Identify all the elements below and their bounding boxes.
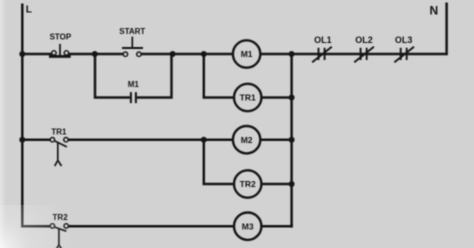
svg-text:M1: M1 [128, 80, 140, 89]
pushbutton STOP (NC) [49, 44, 71, 57]
wire: seal-in branch right [137, 53, 172, 98]
node: bus at TR2 [289, 181, 295, 187]
coil TR1 [234, 84, 261, 111]
wire: M2 coil to bus [260, 138, 292, 141]
node: bus at rung1 [289, 51, 295, 57]
wire rung1: START to M1 coil [141, 53, 233, 56]
wire rung1: bus to N rail through overloads [292, 53, 448, 56]
svg-text:OL2: OL2 [355, 35, 373, 45]
svg-text:OL3: OL3 [395, 35, 413, 45]
coil M1 [233, 40, 260, 67]
node: seal-in right junction [170, 51, 176, 57]
wire: TR2 branch from rung2 [204, 139, 234, 184]
contact M1 (seal-in NO) [131, 92, 136, 103]
wire: M3 coil to bus corner [261, 225, 291, 227]
overload contact OL1 [312, 47, 332, 62]
wire rung1: STOP to START [69, 53, 124, 56]
wire: TR1 branch from rung1 [204, 53, 234, 98]
svg-text:L: L [26, 5, 32, 16]
svg-text:STOP: STOP [50, 32, 72, 41]
overload contact OL2 [354, 47, 374, 62]
node: rail-rung2 junction [19, 137, 25, 143]
wire rung3: rail to TR2 contact [21, 225, 50, 228]
node: bus at TR1 [289, 95, 295, 101]
wire rung2: TR1 contact to M2 coil [68, 138, 233, 141]
wire: seal-in branch left [95, 53, 130, 98]
svg-text:TR1: TR1 [240, 93, 256, 103]
node: TR1 branch junction [201, 51, 207, 57]
timed contact TR1 (NOTC) [50, 138, 68, 166]
node: seal-in left junction [92, 51, 98, 57]
wire: TR1 coil to bus [261, 96, 292, 99]
svg-text:M3: M3 [242, 221, 254, 231]
coil TR2 [234, 170, 261, 197]
coil M3 [234, 213, 261, 240]
svg-text:START: START [119, 27, 145, 36]
wire: M1 coil to bus [260, 53, 292, 56]
pushbutton START (NO) [122, 37, 143, 57]
timed contact TR2 (NOTC) [50, 224, 68, 248]
svg-text:M1: M1 [241, 49, 253, 59]
svg-text:N: N [430, 3, 439, 17]
svg-text:M2: M2 [241, 135, 253, 145]
overload contact OL3 [394, 47, 414, 62]
node: rail-rung1 junction [19, 51, 25, 57]
wire rung3: TR2 contact to M3 coil [68, 225, 234, 228]
wire rung2: rail to TR1 contact [21, 138, 50, 141]
svg-text:OL1: OL1 [314, 35, 332, 45]
wire: TR2 coil to bus [261, 183, 292, 186]
svg-text:TR1: TR1 [51, 127, 67, 136]
right power rail N [445, 3, 448, 56]
wire rung1: rail to STOP [21, 53, 51, 56]
svg-text:TR2: TR2 [240, 179, 256, 189]
coil M2 [233, 126, 260, 153]
left power rail L [21, 4, 24, 228]
node: TR2 branch junction [201, 137, 207, 143]
wire: right coil bus [290, 54, 293, 228]
node: bus at M2 [289, 137, 295, 143]
